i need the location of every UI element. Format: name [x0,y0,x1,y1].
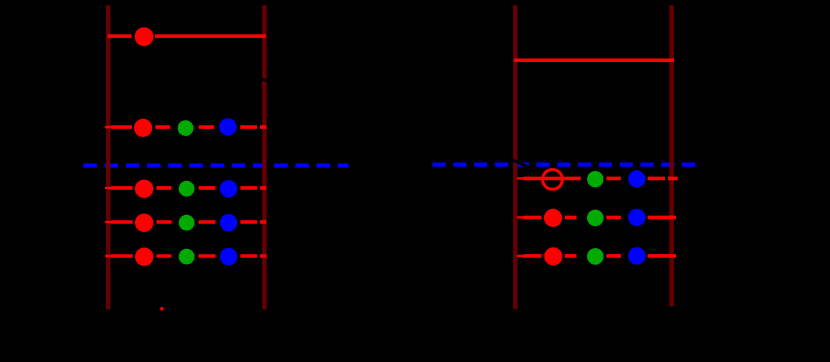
left well: level 4 dashed line [105,221,111,223]
right well level4: blue particle [628,247,645,264]
left well level4: red particle [135,214,153,232]
left well level2: green particle [178,120,194,136]
left well: level 2 dashed line [105,126,111,128]
right well: hole level dashed line [517,177,523,179]
left well level3: blue particle [220,180,237,197]
black annotation stroke crossing left well right wall [256,77,272,82]
left well level5: blue particle [220,248,237,265]
left well level3: red particle [135,180,153,198]
left well level5: red particle [135,248,153,266]
left well level4: blue particle [220,214,237,231]
right well level4: red particle [544,247,562,265]
right well level3: red particle [544,209,562,227]
left well: top level red particle [135,27,154,46]
right well level3: blue particle [628,209,645,226]
left well: top level line (solid) [108,34,266,38]
right well: right wall [669,5,674,306]
left well: level 5 dashed line [105,255,111,257]
left well: level 3 dashed line [105,187,111,189]
left well level2: blue particle [219,118,236,135]
right Fermi level (blue dashed) [432,162,695,166]
right well hole (open red circle) [543,170,563,190]
right well level4: green particle [587,248,604,265]
left well level3: green particle [179,181,195,197]
right well: left wall [513,5,518,309]
right well hole level: green particle [587,171,603,187]
left Fermi level (blue dashed) [83,163,348,167]
right well level3: green particle [587,210,604,227]
right well: top level line (solid, empty) [514,59,674,63]
left well: left wall [106,5,111,309]
tiny red speck below left well [160,307,164,311]
left well: right wall [262,5,267,309]
right well: level 4 dashed line [517,255,523,257]
left well level4: green particle [179,215,195,231]
black annotation stroke crossing right well left wall [510,159,531,168]
right well: level 3 dashed line [517,216,523,218]
left well level5: green particle [179,249,195,265]
left well level2: red particle [134,119,152,137]
right well hole level: blue particle [628,170,645,187]
